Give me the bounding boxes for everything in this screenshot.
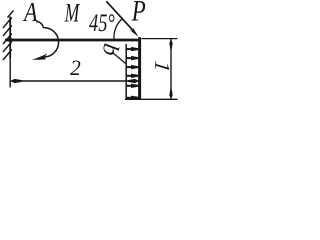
dimension 2 left arrowhead xyxy=(11,79,22,83)
dimension extension line left (below wall) xyxy=(9,58,11,88)
svg-text:A: A xyxy=(22,0,37,27)
dimension 1 top arrowhead xyxy=(169,39,172,48)
q arrow 5 xyxy=(126,84,138,88)
force P arrowhead xyxy=(130,28,139,37)
dimension 2 right arrowhead xyxy=(128,79,139,83)
extension line top right xyxy=(142,38,178,40)
beam AB (horizontal) xyxy=(5,37,12,42)
force P line xyxy=(106,1,133,31)
svg-text:P: P xyxy=(131,0,146,27)
dimension line 2 xyxy=(11,80,139,82)
moment M arc xyxy=(36,22,58,57)
extension line bottom right xyxy=(125,98,178,100)
wall hatching xyxy=(3,11,14,61)
q arrow 3 xyxy=(126,65,138,69)
q arrow 6 (bottom) xyxy=(126,96,138,100)
q arrow 4 xyxy=(126,74,138,78)
q leader line xyxy=(112,52,126,64)
distributed load line (q) xyxy=(125,44,127,99)
wall (fixed support) line xyxy=(9,17,11,59)
dimension line 1 (vertical) xyxy=(170,39,172,99)
q arrow 2 xyxy=(126,56,138,60)
45 degree angle arc xyxy=(114,19,122,39)
dimension 1 bottom arrowhead xyxy=(169,89,172,98)
svg-text:2: 2 xyxy=(70,55,81,80)
vertical member at right xyxy=(138,37,141,99)
moment arrowhead xyxy=(32,53,47,59)
q arrow 1 xyxy=(126,47,138,51)
svg-text:M: M xyxy=(64,0,80,28)
svg-text:45°: 45° xyxy=(89,10,115,37)
